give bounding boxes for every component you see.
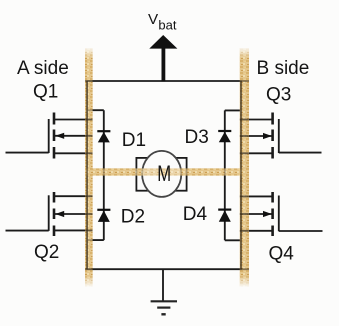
transistor Q1 (high-side A, N-MOSFET)	[6, 113, 93, 159]
node B highlight bar (right leg, tan)	[240, 48, 249, 287]
Vbat supply arrow	[149, 35, 177, 82]
node A highlight bar (left leg, tan)	[85, 48, 93, 287]
wire left diode chain vertical	[103, 110, 105, 240]
motor M (rectangle + circle)	[136, 151, 186, 197]
wire D1 top to A leg	[87, 109, 104, 111]
svg-text:Q3: Q3	[266, 85, 291, 106]
svg-text:A side: A side	[17, 58, 69, 79]
svg-text:bat: bat	[158, 18, 176, 33]
transistor Q2 (low-side A, N-MOSFET)	[6, 192, 93, 236]
svg-text:M: M	[157, 162, 171, 187]
svg-text:D2: D2	[121, 206, 145, 227]
svg-text:Q2: Q2	[34, 242, 59, 263]
wire segments showing through highlight bars	[85, 81, 249, 269]
node A highlight overlay	[85, 48, 93, 287]
wire left leg (A side conductor)	[86, 81, 88, 269]
motor path highlight overlay (tan over wires)	[85, 168, 249, 175]
wire D3 top to B leg	[225, 109, 241, 111]
wire bottom rail (ground rail)	[86, 268, 242, 270]
diode D1 (body diode, cathode up)	[97, 131, 110, 142]
svg-text:D4: D4	[183, 204, 208, 225]
svg-text:D3: D3	[185, 127, 209, 148]
svg-text:B side: B side	[257, 58, 310, 79]
transistor Q3 (high-side B, N-MOSFET)	[240, 113, 322, 159]
wire D2 bottom to A leg	[87, 239, 104, 241]
motor current path highlight (horizontal tan band)	[85, 168, 249, 175]
wire right diode chain vertical	[224, 110, 226, 240]
transistor Q4 (low-side B, N-MOSFET)	[240, 192, 323, 236]
wire top rail (Vbat rail)	[86, 80, 242, 82]
diode D3 (body diode, cathode up)	[218, 131, 231, 142]
svg-text:Q4: Q4	[269, 243, 295, 264]
node A / node B highlight bar end fades	[85, 48, 93, 58]
wire D4 bottom to B leg	[225, 239, 241, 241]
ground	[151, 269, 177, 314]
svg-text:D1: D1	[122, 130, 146, 151]
diode D4 (body diode, cathode up)	[218, 210, 231, 222]
diode D2 (body diode, cathode up)	[97, 210, 110, 222]
node B highlight overlay	[240, 48, 249, 287]
svg-text:V: V	[148, 11, 159, 28]
label Vbat	[148, 11, 177, 32]
svg-text:Q1: Q1	[33, 81, 58, 102]
wire right leg (B side conductor)	[240, 81, 242, 269]
